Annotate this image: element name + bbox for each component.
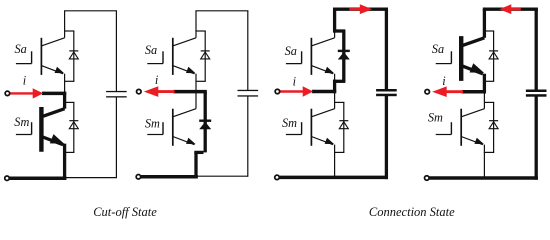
transistor Sa p2 (IGBT) <box>173 38 196 75</box>
current arrow top rail p4 (left) <box>510 8 521 11</box>
transistor Sm p3 (IGBT) <box>311 109 334 146</box>
current arrow i p4 (out of cell) <box>446 90 463 93</box>
wire Sa emitter vertical p2 <box>195 74 197 92</box>
terminal bottom p2 <box>136 175 141 180</box>
svg-text:i: i <box>293 75 297 89</box>
wire bottom rail p3 <box>279 176 388 180</box>
wire Sm diode branch p4 <box>484 102 494 152</box>
wire Sa emitter vertical p1 <box>64 74 66 94</box>
wire midpoint p2 <box>173 90 207 94</box>
wire Sm collector vertical p1 <box>63 92 66 109</box>
gate lead of Sm p1 <box>16 122 32 134</box>
current arrow i p3 (into cell) <box>280 90 304 92</box>
wire top rail p2 <box>195 10 248 12</box>
terminal input p1 <box>5 91 9 96</box>
wire midpoint p4 <box>462 90 486 94</box>
current arrow i p1 (into cell) <box>10 92 34 94</box>
transistor Sm p2 (IGBT) <box>173 109 196 146</box>
wire Sa diode branch p3 <box>333 31 345 81</box>
wire bottom rail p1 <box>9 176 66 180</box>
wire Sm diode branch p2 <box>194 92 205 153</box>
svg-text:i: i <box>155 73 159 87</box>
wire Sm emitter vertical p1 <box>63 144 66 180</box>
wire bottom rail p2 <box>141 175 198 179</box>
wire Sa emitter vertical p4 <box>483 74 486 94</box>
gate lead of Sm p2 <box>147 122 163 134</box>
terminal input p3 <box>275 89 280 94</box>
svg-text:Sa: Sa <box>432 42 444 56</box>
wire Sm emitter vertical p3 <box>334 145 336 178</box>
wire Sa diode branch p2 <box>195 31 205 81</box>
wire bottom rail p4 <box>429 176 538 180</box>
capacitor C p4 <box>526 9 547 180</box>
diode D-Sa p1 <box>69 51 78 59</box>
wire top rail p3 <box>333 8 388 11</box>
svg-text:Sm: Sm <box>14 115 29 129</box>
diode D-Sa p4 <box>489 51 498 59</box>
wire Sa collector vertical p1 <box>64 11 66 38</box>
transistor Sm p1 (IGBT) <box>41 107 64 152</box>
wire midpoint p3 <box>312 90 336 94</box>
diode D-Sm p4 <box>489 121 498 129</box>
svg-text:i: i <box>23 74 27 88</box>
terminal bottom p1 <box>5 176 10 181</box>
gate lead of Sm p4 <box>436 122 452 134</box>
diode D-Sa p2 <box>201 51 210 59</box>
terminal bottom p3 <box>275 175 280 180</box>
wire Sa collector vertical p3 <box>333 9 336 32</box>
transistor Sa p1 (IGBT) <box>41 38 64 75</box>
capacitor C p2 <box>238 11 259 177</box>
svg-text:Sa: Sa <box>145 43 157 57</box>
wire top rail p1 <box>64 10 117 12</box>
gate lead of Sa p4 <box>436 51 452 63</box>
wire Sa collector vertical p4 <box>483 9 486 38</box>
diode D-Sm p2 <box>199 120 211 130</box>
wire Sm emitter vertical p4 <box>483 145 485 178</box>
wire Sm collector vertical p4 <box>483 92 485 109</box>
capacitor C p1 <box>106 11 127 178</box>
transistor Sa p4 (IGBT) <box>461 36 484 81</box>
wire Sm diode branch p1 <box>64 102 74 152</box>
wire Sm diode branch p3 <box>334 102 344 152</box>
diode D-Sa p3 <box>338 50 350 60</box>
wire Sm collector vertical p3 <box>334 92 336 109</box>
svg-text:Sm: Sm <box>282 116 297 130</box>
current arrow i p2 (out of cell) <box>157 90 174 93</box>
transistor Sm p4 (IGBT) <box>461 109 484 146</box>
wire Sa diode branch p4 <box>484 31 494 81</box>
svg-text:Cut-off State: Cut-off State <box>93 205 157 219</box>
diode D-Sm p3 <box>339 121 348 129</box>
gate lead of Sm p3 <box>286 122 302 134</box>
diode D-Sm p1 <box>69 121 78 129</box>
transistor Sa p3 (IGBT) <box>311 38 334 75</box>
wire Sa collector vertical p2 <box>195 11 197 38</box>
svg-text:Sm: Sm <box>145 116 160 130</box>
svg-text:i: i <box>442 74 446 88</box>
svg-text:Sa: Sa <box>15 42 27 56</box>
wire Sa emitter vertical p3 <box>334 74 336 82</box>
wire Sa diode branch p1 <box>64 31 74 81</box>
capacitor C p3 <box>376 9 397 179</box>
svg-text:Connection State: Connection State <box>369 205 455 219</box>
gate lead of Sa p3 <box>286 51 302 63</box>
gate lead of Sa p2 <box>147 51 163 63</box>
svg-text:Sm: Sm <box>428 111 443 125</box>
gate lead of Sa p1 <box>16 51 32 63</box>
terminal input p2 <box>137 89 142 94</box>
current arrow top rail p3 (right) <box>349 8 360 11</box>
terminal bottom p4 <box>425 176 430 181</box>
wire top rail p4 <box>483 8 538 11</box>
wire midpoint p1 <box>42 92 66 96</box>
wire Sm emitter vertical p2 <box>194 152 197 178</box>
terminal input p4 <box>425 89 430 94</box>
wire Sm collector vertical p2 <box>195 92 197 109</box>
svg-text:Sa: Sa <box>285 44 297 58</box>
